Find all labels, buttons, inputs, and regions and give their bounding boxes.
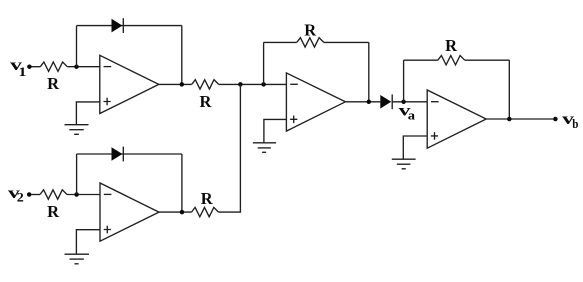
ground G1	[65, 125, 89, 135]
wire D3 to U4 inverting input	[392, 101, 427, 103]
ground G3	[253, 143, 276, 153]
wire U3 output to D3	[345, 101, 380, 103]
node U1 output	[180, 82, 185, 87]
wire R1 to U1 inverting input	[67, 66, 100, 68]
wire feedback 4 top right horizontal	[465, 59, 510, 61]
diode D2	[112, 147, 124, 162]
wire v1 to R1	[32, 66, 41, 68]
svg-text:R: R	[445, 36, 458, 55]
svg-text:2: 2	[17, 190, 24, 205]
svg-text:R: R	[47, 202, 60, 221]
diode D3	[380, 94, 392, 109]
node C (summing node 3)	[261, 82, 266, 87]
wire U3 plus input to ground	[264, 119, 287, 142]
node U3 output	[367, 100, 372, 105]
wire U4 plus input to ground	[403, 136, 427, 159]
resistor R2	[192, 80, 219, 89]
wire feedback 4 left vertical	[403, 60, 405, 102]
wire R4 to node B	[219, 84, 241, 212]
wire R2 to U3 inverting input	[219, 83, 287, 85]
wire feedback 2 right vertical	[181, 154, 183, 212]
terminal dot v2	[27, 192, 32, 197]
node va	[401, 100, 406, 105]
svg-text:b: b	[572, 117, 578, 131]
svg-text:a: a	[408, 108, 415, 122]
node B (junction of R2 and R4)	[238, 82, 243, 87]
wire v2 to R3	[31, 194, 40, 196]
node U2 output	[180, 210, 185, 215]
svg-text:R: R	[47, 74, 60, 93]
op-amp U4	[427, 90, 486, 148]
wire feedback 4 top left horizontal	[404, 59, 438, 61]
wire feedback 4 right vertical	[508, 60, 510, 119]
wire U4 output to vb	[486, 118, 553, 120]
wire feedback 2 left vertical	[76, 154, 78, 195]
svg-text:R: R	[200, 92, 213, 111]
svg-text:R: R	[201, 189, 214, 208]
ground G2	[65, 254, 90, 264]
wire feedback 1 left vertical	[76, 26, 78, 67]
wire feedback 2 top horizontal	[77, 153, 182, 155]
op-amp U2	[100, 183, 159, 241]
node U4 output	[507, 117, 512, 122]
wire U1 plus input to ground	[76, 102, 99, 125]
svg-text:1: 1	[18, 65, 26, 79]
terminal dot vb	[553, 117, 558, 122]
wire R3 to U2 inverting input	[67, 194, 100, 196]
wire U2 plus input to ground	[76, 230, 100, 254]
wire U1 output to R2	[159, 83, 192, 85]
resistor R6	[438, 56, 465, 65]
node label va	[399, 103, 415, 123]
ground G4	[392, 159, 416, 169]
node label v1	[10, 57, 26, 79]
svg-text:R: R	[304, 20, 317, 39]
node A (summing node 1)	[74, 64, 79, 69]
wire feedback 3 top right horizontal	[324, 41, 369, 43]
wire feedback 1 right vertical	[181, 26, 183, 85]
op-amp U3	[286, 73, 345, 131]
node D (summing node 2)	[74, 192, 79, 197]
terminal dot v1	[27, 64, 32, 69]
node label vb	[562, 111, 578, 131]
op-amp U1	[100, 55, 159, 113]
resistor R5	[297, 38, 324, 47]
wire feedback 1 top horizontal	[77, 25, 182, 27]
diode D1	[112, 18, 124, 33]
wire feedback 3 right vertical	[368, 42, 370, 101]
wire feedback 3 top left horizontal	[264, 41, 297, 43]
node label v2	[8, 185, 24, 205]
resistor R4	[192, 207, 219, 216]
wire feedback 3 left vertical	[263, 42, 265, 84]
resistor R1	[40, 62, 67, 71]
wire U2 output to R4	[159, 211, 192, 213]
resistor R3	[40, 190, 67, 199]
